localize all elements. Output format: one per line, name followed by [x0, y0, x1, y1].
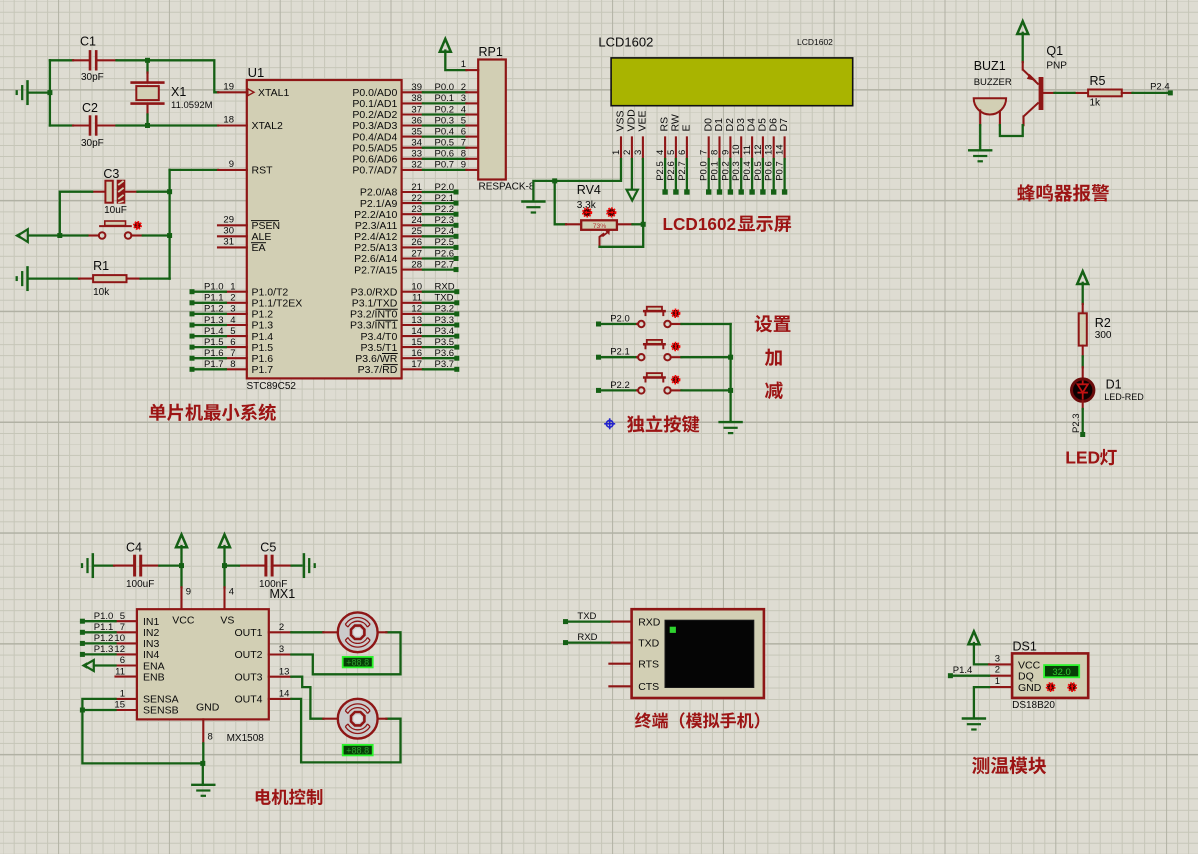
wire: [202, 743, 204, 763]
pin 29 PSEN: [218, 214, 280, 232]
svg-text:3: 3: [633, 150, 644, 155]
pin 21 P2.0: [360, 182, 459, 199]
pin 28 P2.7: [354, 259, 458, 276]
svg-text:P2.4: P2.4: [435, 226, 455, 237]
svg-text:300: 300: [1095, 330, 1112, 341]
IC MX1 MX1508: [137, 587, 295, 744]
svg-text:BUZZER: BUZZER: [974, 77, 1012, 88]
motor M1: [323, 612, 386, 652]
wire: [953, 675, 989, 677]
svg-text:P3.2: P3.2: [435, 304, 455, 315]
pin 4 RS (LCD): [655, 117, 671, 195]
capacitor C1: [73, 35, 117, 84]
svg-text:OUT4: OUT4: [234, 694, 262, 706]
wire: [568, 620, 609, 622]
svg-text:9: 9: [186, 587, 191, 598]
power terminal (down): [627, 190, 638, 201]
svg-text:GND: GND: [1018, 682, 1042, 694]
actuator (DS1 up): [1068, 683, 1076, 691]
crystal X1: [132, 73, 213, 115]
svg-text:14: 14: [279, 689, 290, 700]
svg-text:3: 3: [279, 644, 284, 655]
svg-text:P0.7/AD7: P0.7/AD7: [352, 165, 397, 177]
ground: [720, 422, 742, 433]
svg-text:X1: X1: [171, 85, 186, 99]
wire: [292, 564, 302, 566]
resistor R5 1k: [1075, 74, 1133, 109]
svg-text:OUT3: OUT3: [234, 671, 262, 683]
svg-text:P2.7: P2.7: [435, 259, 455, 270]
wire: [601, 356, 637, 358]
svg-text:C5: C5: [260, 541, 276, 555]
power terminal (DS18B20): [968, 631, 989, 664]
pin 36 P0.3: [352, 115, 478, 132]
svg-text:30pF: 30pF: [81, 72, 104, 83]
push button (key P2.1): [637, 340, 681, 361]
svg-text:RP1: RP1: [479, 45, 503, 59]
svg-text:P1.2: P1.2: [94, 633, 114, 644]
svg-text:1: 1: [611, 150, 622, 155]
svg-text:2: 2: [461, 82, 466, 93]
pin 35 P0.4: [352, 126, 478, 143]
svg-text:2: 2: [995, 665, 1000, 676]
resistor R1: [79, 259, 141, 298]
temperature sensor DS1 DS18B20: [1012, 640, 1088, 712]
svg-text:13: 13: [764, 144, 775, 155]
svg-text:P3.3: P3.3: [435, 315, 455, 326]
svg-text:5: 5: [666, 150, 677, 155]
svg-text:Q1: Q1: [1046, 44, 1063, 58]
svg-text:14: 14: [411, 326, 422, 337]
wire: [225, 564, 240, 566]
ground: [17, 81, 28, 103]
rpm display (motor M1): [343, 657, 373, 668]
svg-text:19: 19: [223, 81, 234, 92]
capacitor C4 100uF: [114, 541, 159, 591]
svg-text:RXD: RXD: [435, 282, 455, 293]
pin 37 P0.2: [352, 104, 478, 121]
wire: [117, 60, 219, 92]
actuator (reset button): [134, 222, 141, 229]
pin 25 P2.4: [354, 226, 458, 243]
svg-text:P0.7: P0.7: [775, 161, 786, 181]
power terminal (RP1): [440, 39, 467, 70]
wire: [94, 564, 114, 566]
svg-text:TXD: TXD: [638, 637, 659, 649]
svg-text:P2.4: P2.4: [1150, 82, 1170, 93]
svg-text:1: 1: [120, 689, 125, 700]
actuator (key): [672, 343, 679, 350]
transistor Q1 PNP: [1023, 44, 1068, 125]
svg-text:31: 31: [223, 236, 234, 247]
wire (SENSA down): [82, 699, 202, 764]
svg-text:P1.4: P1.4: [953, 665, 973, 676]
caption 电机控制: [256, 789, 323, 805]
power terminal: [1017, 21, 1028, 34]
svg-text:8: 8: [208, 732, 213, 743]
wire: [29, 277, 79, 279]
svg-text:TXD: TXD: [435, 293, 454, 304]
pin 10 D3 (LCD): [731, 118, 747, 195]
pin 2 DQ (DS1): [989, 665, 1012, 676]
svg-text:P1.1: P1.1: [94, 622, 114, 633]
pin 13 D6 (LCD): [764, 118, 780, 195]
svg-text:9: 9: [720, 150, 731, 155]
svg-text:13: 13: [411, 315, 422, 326]
pin 5 IN1 (MX1): [80, 611, 137, 624]
ground: [522, 202, 544, 213]
wire (OUT3 to motor2): [291, 677, 323, 719]
svg-text:29: 29: [223, 214, 234, 225]
power terminal: [219, 535, 230, 548]
pin 22 P2.1: [360, 193, 459, 210]
svg-text:32: 32: [411, 160, 422, 171]
svg-text:8: 8: [230, 359, 235, 370]
svg-text:8: 8: [710, 150, 721, 155]
rpm display (motor M2): [343, 745, 373, 756]
svg-text:38: 38: [411, 93, 422, 104]
svg-text:36: 36: [411, 115, 422, 126]
svg-text:P0.6: P0.6: [764, 161, 775, 181]
junction: [167, 233, 172, 238]
svg-text:39: 39: [411, 82, 422, 93]
svg-text:11: 11: [742, 145, 753, 155]
svg-text:P3.7: P3.7: [435, 359, 455, 370]
svg-text:CTS: CTS: [638, 681, 659, 693]
caption 单片机最小系统: [149, 403, 276, 420]
pin 1 P1.0: [190, 282, 289, 299]
svg-text:RV4: RV4: [577, 183, 601, 197]
svg-text:14: 14: [775, 144, 786, 155]
pin 13 OUT3 (MX1): [269, 666, 292, 677]
LED D1 LED-RED: [1072, 367, 1145, 409]
svg-text:OUT2: OUT2: [234, 649, 262, 661]
push button (key P2.0): [637, 307, 681, 327]
svg-text:1: 1: [230, 282, 235, 293]
wire: [682, 356, 731, 358]
svg-text:D1: D1: [1106, 378, 1122, 392]
ground: [17, 267, 28, 289]
svg-text:P2.0: P2.0: [435, 182, 455, 193]
terminal P2.4: [1150, 82, 1173, 96]
pin 17 P3.7/RD: [358, 359, 460, 376]
svg-text:5: 5: [461, 115, 466, 126]
svg-text:VCC: VCC: [1018, 659, 1041, 671]
svg-text:13: 13: [279, 666, 290, 677]
svg-text:R5: R5: [1090, 74, 1106, 88]
pin 6 P1.5: [190, 337, 274, 354]
pin 15 SENSB (MX1): [114, 700, 136, 711]
capacitor C5 100nF: [239, 541, 292, 591]
junction: [145, 123, 150, 128]
svg-text:VS: VS: [220, 615, 234, 627]
svg-text:23: 23: [411, 204, 422, 215]
svg-text:7: 7: [230, 348, 235, 359]
svg-text:1: 1: [995, 676, 1000, 687]
svg-text:3: 3: [995, 653, 1000, 664]
pin 24 P2.3: [355, 215, 459, 232]
terminal RXD net: [563, 632, 598, 645]
svg-text:12: 12: [753, 144, 764, 155]
svg-text:P3.4: P3.4: [435, 326, 455, 337]
actuator (DS1 down): [1047, 683, 1055, 691]
wire: [555, 181, 566, 224]
motor M2: [323, 699, 386, 739]
caption 测温模块: [972, 757, 1046, 775]
svg-text:9: 9: [229, 159, 234, 170]
junction: [80, 708, 85, 713]
junction: [57, 233, 62, 238]
pin 2 VDD (LCD): [622, 109, 638, 159]
svg-text:P1.1: P1.1: [204, 293, 224, 304]
pin 19 XTAL1: [218, 81, 289, 99]
junction: [200, 761, 205, 766]
pin 13 P3.3/INT1: [350, 315, 459, 332]
svg-text:P1.7: P1.7: [204, 359, 224, 370]
actuator (RV4 increase): [607, 208, 615, 216]
pin 15 P3.5/T1: [361, 337, 460, 354]
svg-text:12: 12: [411, 304, 422, 315]
pin 5 RW (LCD): [666, 114, 682, 195]
svg-text:RST: RST: [252, 165, 274, 177]
wire: [146, 60, 148, 72]
caption 终端（模拟手机）: [635, 712, 759, 728]
svg-text:P2.6: P2.6: [435, 248, 455, 259]
svg-text:MX1: MX1: [270, 587, 296, 601]
pin 7 IN2 (MX1): [80, 622, 137, 635]
svg-text:U1: U1: [248, 65, 265, 80]
svg-text:P1.4: P1.4: [204, 326, 224, 337]
pin 3 OUT2 (MX1): [269, 644, 292, 655]
svg-text:26: 26: [411, 237, 422, 248]
wire (SENSB): [82, 709, 115, 711]
svg-text:P2.5: P2.5: [435, 237, 455, 248]
wire (OUT2 to motor1): [291, 632, 400, 674]
wire (OUT1 to motor1): [291, 631, 323, 633]
pin 7 D0 (LCD): [699, 118, 715, 195]
wire: [974, 687, 989, 717]
svg-text:P3.5: P3.5: [435, 337, 455, 348]
svg-text:35: 35: [411, 126, 422, 137]
svg-text:RXD: RXD: [577, 632, 597, 643]
pin 34 P0.5: [352, 138, 478, 155]
svg-text:28: 28: [411, 259, 422, 270]
svg-text:6: 6: [461, 126, 466, 137]
pin 9 VCC (MX1): [182, 587, 191, 610]
svg-text:C1: C1: [80, 35, 96, 49]
svg-text:P1.3: P1.3: [94, 644, 114, 655]
svg-text:TXD: TXD: [577, 611, 596, 622]
svg-text:P2.7: P2.7: [677, 161, 688, 181]
svg-text:34: 34: [411, 138, 422, 149]
wire: [682, 389, 731, 391]
svg-text:XTAL2: XTAL2: [252, 120, 283, 132]
terminal (default, reset): [15, 229, 28, 242]
pin 33 P0.6: [352, 149, 478, 166]
svg-text:1k: 1k: [1090, 98, 1102, 109]
svg-text:+88.8: +88.8: [346, 658, 369, 668]
caption LED灯: [1065, 448, 1117, 468]
svg-text:C2: C2: [82, 101, 98, 115]
svg-text:2: 2: [230, 293, 235, 304]
svg-text:4: 4: [229, 587, 234, 598]
pin 2 OUT1 (MX1): [269, 622, 292, 633]
pin 39 P0.0: [352, 82, 478, 99]
caption 蜂鸣器报警: [1017, 184, 1109, 202]
wire: [1133, 92, 1168, 94]
svg-text:11: 11: [412, 293, 422, 304]
svg-text:2: 2: [279, 622, 284, 633]
svg-text:3: 3: [461, 93, 466, 104]
caption 独立按键: [604, 415, 699, 433]
svg-text:P3.6: P3.6: [435, 348, 455, 359]
svg-text:8: 8: [461, 149, 466, 160]
pin 38 P0.1: [352, 93, 478, 110]
svg-text:RESPACK-8: RESPACK-8: [479, 182, 535, 193]
pin 26 P2.5: [354, 237, 458, 254]
ground: [192, 785, 214, 796]
svg-text:P0.4: P0.4: [742, 161, 753, 181]
terminal P2.1: [596, 347, 630, 360]
junction: [47, 90, 52, 95]
pin 23 P2.2: [354, 204, 458, 221]
ground: [963, 719, 985, 730]
wire: [601, 389, 637, 391]
svg-text:SENSB: SENSB: [143, 705, 179, 717]
svg-text:P1.3: P1.3: [204, 315, 224, 326]
svg-text:P3.7/RD: P3.7/RD: [358, 364, 398, 376]
wire (OUT4 to motor2): [291, 699, 400, 763]
actuator (key): [672, 376, 679, 383]
power terminal (VDD, down): [627, 159, 638, 201]
pin 11 D4 (LCD): [742, 118, 758, 195]
svg-text:100uF: 100uF: [126, 579, 154, 590]
capacitor C2: [73, 101, 117, 149]
svg-text:RTS: RTS: [638, 658, 659, 670]
power terminal (VS): [219, 535, 230, 588]
svg-text:ENB: ENB: [143, 671, 165, 683]
buzzer BUZ1: [974, 59, 1012, 125]
svg-text:PNP: PNP: [1046, 61, 1067, 72]
svg-text:P1.5: P1.5: [204, 337, 224, 348]
power terminal (LED): [1077, 271, 1088, 304]
svg-text:P0.7: P0.7: [435, 160, 455, 171]
svg-text:P0.5: P0.5: [435, 138, 455, 149]
wire (VSS to ground): [533, 159, 621, 200]
wire: [202, 763, 204, 783]
svg-text:32.0: 32.0: [1052, 667, 1071, 678]
svg-text:XTAL1: XTAL1: [258, 87, 289, 99]
pin 4 P1.3: [190, 315, 274, 332]
svg-text:BUZ1: BUZ1: [974, 59, 1006, 73]
svg-text:GND: GND: [196, 702, 220, 714]
svg-text:11: 11: [115, 666, 125, 677]
capacitor C3 (electrolytic): [92, 167, 137, 216]
wire (key common bus): [729, 324, 731, 421]
wire (C2 row): [50, 124, 73, 126]
svg-text:DS1: DS1: [1013, 640, 1037, 654]
svg-text:27: 27: [411, 248, 422, 259]
svg-text:P1.0: P1.0: [204, 282, 224, 293]
virtual terminal (phone): [632, 609, 764, 698]
pin 31 EA: [218, 236, 266, 254]
pin 11 ENB (MX1): [115, 666, 137, 677]
terminal P2.0: [596, 314, 630, 327]
svg-text:25: 25: [411, 226, 422, 237]
svg-text:VCC: VCC: [172, 615, 195, 627]
junction: [179, 563, 184, 568]
junction: [167, 189, 172, 194]
svg-text:P2.7/A15: P2.7/A15: [354, 264, 397, 276]
power terminal: [440, 39, 451, 52]
pin 14 OUT4 (MX1): [269, 689, 292, 700]
caption LCD1602显示屏: [663, 214, 792, 234]
svg-text:10k: 10k: [93, 287, 110, 298]
pin 27 P2.6: [354, 248, 458, 265]
power terminal (buzzer): [1017, 21, 1028, 62]
svg-text:P0.4: P0.4: [435, 126, 455, 137]
svg-text:R2: R2: [1095, 316, 1111, 330]
pin 18 XTAL2: [218, 115, 283, 133]
svg-text:4: 4: [655, 150, 666, 155]
wire: [1000, 125, 1023, 136]
wire (RST net): [170, 169, 218, 171]
svg-text:10: 10: [114, 633, 125, 644]
svg-text:15: 15: [411, 337, 422, 348]
svg-text:+88.8: +88.8: [346, 746, 369, 756]
pin 1 SENSA (MX1): [116, 689, 137, 700]
svg-text:4: 4: [461, 104, 466, 115]
wire: [601, 323, 637, 325]
svg-text:P1.2: P1.2: [204, 304, 224, 315]
terminal P2.3: [1071, 413, 1085, 437]
power terminal (VCC): [176, 535, 187, 588]
pin 9 RST: [218, 159, 273, 177]
junction: [222, 563, 227, 568]
svg-text:P0.1: P0.1: [710, 161, 721, 181]
svg-text:P0.0: P0.0: [435, 82, 455, 93]
svg-text:P2.3: P2.3: [1071, 413, 1082, 433]
svg-text:1: 1: [461, 59, 466, 70]
svg-text:6: 6: [677, 150, 688, 155]
svg-text:EA: EA: [252, 242, 266, 254]
junction: [552, 178, 557, 183]
wire: [1055, 92, 1075, 94]
wire: [146, 115, 148, 126]
terminal P2.2: [596, 380, 630, 393]
pin 6 E (LCD): [677, 124, 693, 194]
svg-text:MX1508: MX1508: [227, 733, 265, 744]
wire: [28, 234, 60, 236]
pin 16 P3.6/WR: [355, 348, 459, 365]
wire: [159, 564, 181, 566]
pin 11 P3.1/TXD: [352, 293, 460, 310]
wire: [568, 641, 609, 643]
pin 8 P1.7: [190, 359, 274, 376]
svg-text:R1: R1: [93, 259, 109, 273]
svg-text:30pF: 30pF: [81, 138, 104, 149]
pin TXD (terminal): [609, 642, 631, 644]
svg-text:P0.3: P0.3: [435, 115, 455, 126]
pin 8 D1 (LCD): [710, 118, 726, 195]
svg-text:E: E: [681, 124, 693, 131]
svg-text:STC89C52: STC89C52: [247, 381, 297, 392]
svg-text:12: 12: [114, 644, 125, 655]
pin 10 P3.0/RXD: [351, 282, 460, 299]
svg-text:73%: 73%: [593, 223, 607, 230]
potentiometer RV4 3.3k: [566, 183, 633, 247]
wire (C1 row): [50, 59, 73, 61]
